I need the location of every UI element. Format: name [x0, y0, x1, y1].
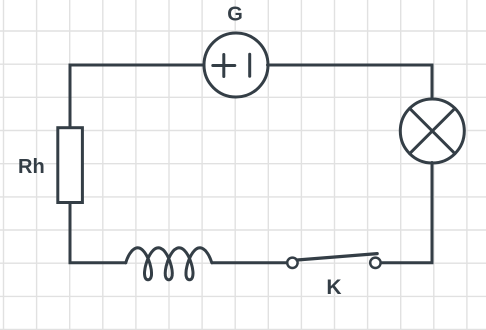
svg-text:Rh: Rh: [18, 156, 45, 178]
inductor L1 (coil): [126, 248, 212, 280]
generator G positive polarity mark (+): [213, 55, 235, 77]
switch K lever arm: [297, 254, 377, 260]
generator G: [204, 33, 268, 97]
svg-text:K: K: [326, 276, 341, 299]
wire: rheostat Rh top terminal up to top-left corner and across to generator G left terminal: [70, 65, 205, 128]
switch K right contact: [370, 258, 380, 268]
wire: switch K left contact to inductor right end: [212, 261, 287, 264]
resistor Rh (rheostat): [58, 128, 83, 203]
generator G negative terminal bar (|): [248, 54, 251, 76]
wire: generator G right terminal to top-right corner down to lamp top terminal: [268, 65, 433, 100]
lamp L1 filament cross (X): [410, 108, 455, 153]
wire: lamp bottom terminal down to bottom-right corner and across to switch K right contact: [381, 163, 432, 263]
switch K left contact: [287, 258, 297, 268]
generator G body (circle): [204, 33, 268, 97]
svg-text:G: G: [227, 4, 243, 26]
lamp L1: [400, 99, 464, 163]
wire: inductor left end to bottom-left corner and up to rheostat Rh bottom terminal: [70, 203, 126, 263]
switch K: [287, 254, 380, 268]
lamp L1 body (circle): [400, 99, 464, 163]
